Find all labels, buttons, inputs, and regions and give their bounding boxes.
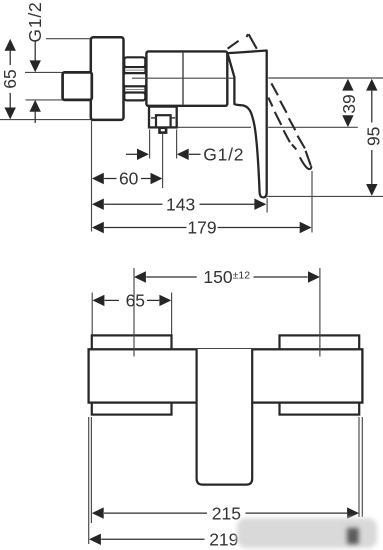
outlet inner nut <box>156 115 171 127</box>
wire: extension line square top <box>25 71 63 73</box>
dimension 95 far right <box>366 79 377 91</box>
svg-text:39: 39 <box>339 94 359 113</box>
svg-text:G1/2: G1/2 <box>25 1 45 42</box>
dimension G1/2 outlet row <box>126 153 137 155</box>
dimension 65 left: arrows and label <box>5 39 16 51</box>
wire: extension line escutcheon bottom <box>0 119 91 121</box>
left escutcheon (front view) <box>92 335 172 414</box>
wire: reference line handle bottom level <box>267 195 383 197</box>
mixer body <box>146 51 227 105</box>
outlet flange <box>149 107 177 128</box>
union nut bottom cap <box>124 93 145 101</box>
union nut top band <box>124 67 145 73</box>
svg-text:150±12: 150±12 <box>203 267 250 287</box>
wire: reference line outlet bottom level <box>178 126 252 128</box>
wire: 65 extension right <box>171 293 173 337</box>
wire: 65 extension left <box>91 293 93 337</box>
body centerline <box>132 77 234 79</box>
dimension 143 row <box>92 199 104 210</box>
body bar (front view) <box>89 349 363 402</box>
dimension 150 +-12 row <box>134 271 146 282</box>
wire: outlet right extension <box>176 130 178 159</box>
outlet right facet line <box>171 117 176 119</box>
wire: reference line right (body center level) <box>268 77 383 79</box>
dimension 39 right <box>342 79 353 91</box>
wire: lever tip extension <box>311 171 313 233</box>
right escutcheon (front view) <box>280 335 360 414</box>
wire: outlet left extension <box>149 130 151 159</box>
wire: 215 extension left <box>90 417 92 523</box>
outlet left facet line <box>151 117 156 119</box>
dimension 219 row <box>89 534 101 545</box>
lever open left edge dashes <box>268 98 296 150</box>
wire: master left extension line <box>91 121 93 232</box>
union nut bottom band <box>124 86 145 92</box>
svg-text:G1/2: G1/2 <box>203 145 244 165</box>
lever open position dash a <box>228 41 239 49</box>
svg-text:143: 143 <box>166 194 195 214</box>
dimension 65 row (bottom view) <box>93 295 105 306</box>
lever open tip cap <box>300 157 311 169</box>
escutcheon (side view) <box>91 37 124 120</box>
lever open right edge dashes <box>271 83 310 165</box>
svg-text:219: 219 <box>209 530 238 550</box>
dimension 60 row <box>92 173 104 184</box>
svg-text:215: 215 <box>212 503 241 523</box>
wire: supply centerline right <box>319 268 321 357</box>
lever open position dash b <box>246 34 248 37</box>
wire: 219 extension left <box>88 417 90 544</box>
wire: handle tip extension <box>266 198 268 213</box>
union nut middle barrel <box>124 73 147 86</box>
wire: supply centerline left <box>133 268 135 357</box>
G1/2 wall connection square <box>63 72 92 100</box>
watermark blur patch <box>237 518 377 548</box>
body cartridge division line <box>182 53 184 105</box>
wire: 215 extension right <box>358 417 360 517</box>
outlet nipple <box>160 128 167 133</box>
wire: outlet centerline <box>162 134 164 188</box>
dimension 215 row <box>92 507 104 518</box>
wire: 219 extension right <box>361 417 363 517</box>
svg-text:60: 60 <box>119 169 139 189</box>
svg-text:179: 179 <box>187 218 216 238</box>
svg-text:65: 65 <box>0 69 20 88</box>
dimension G1/2 top: leader and arrows <box>34 42 36 63</box>
handle lever (closed position) <box>228 51 267 198</box>
lever open position dash c <box>249 34 257 49</box>
wire: extension line square bottom <box>26 99 64 101</box>
svg-text:65: 65 <box>126 291 145 311</box>
handle (front view) <box>197 349 253 485</box>
union nut top cap <box>124 57 145 67</box>
dimension 179 row <box>92 222 104 233</box>
svg-text:95: 95 <box>363 127 383 146</box>
wire: extension line escutcheon top <box>46 38 91 40</box>
